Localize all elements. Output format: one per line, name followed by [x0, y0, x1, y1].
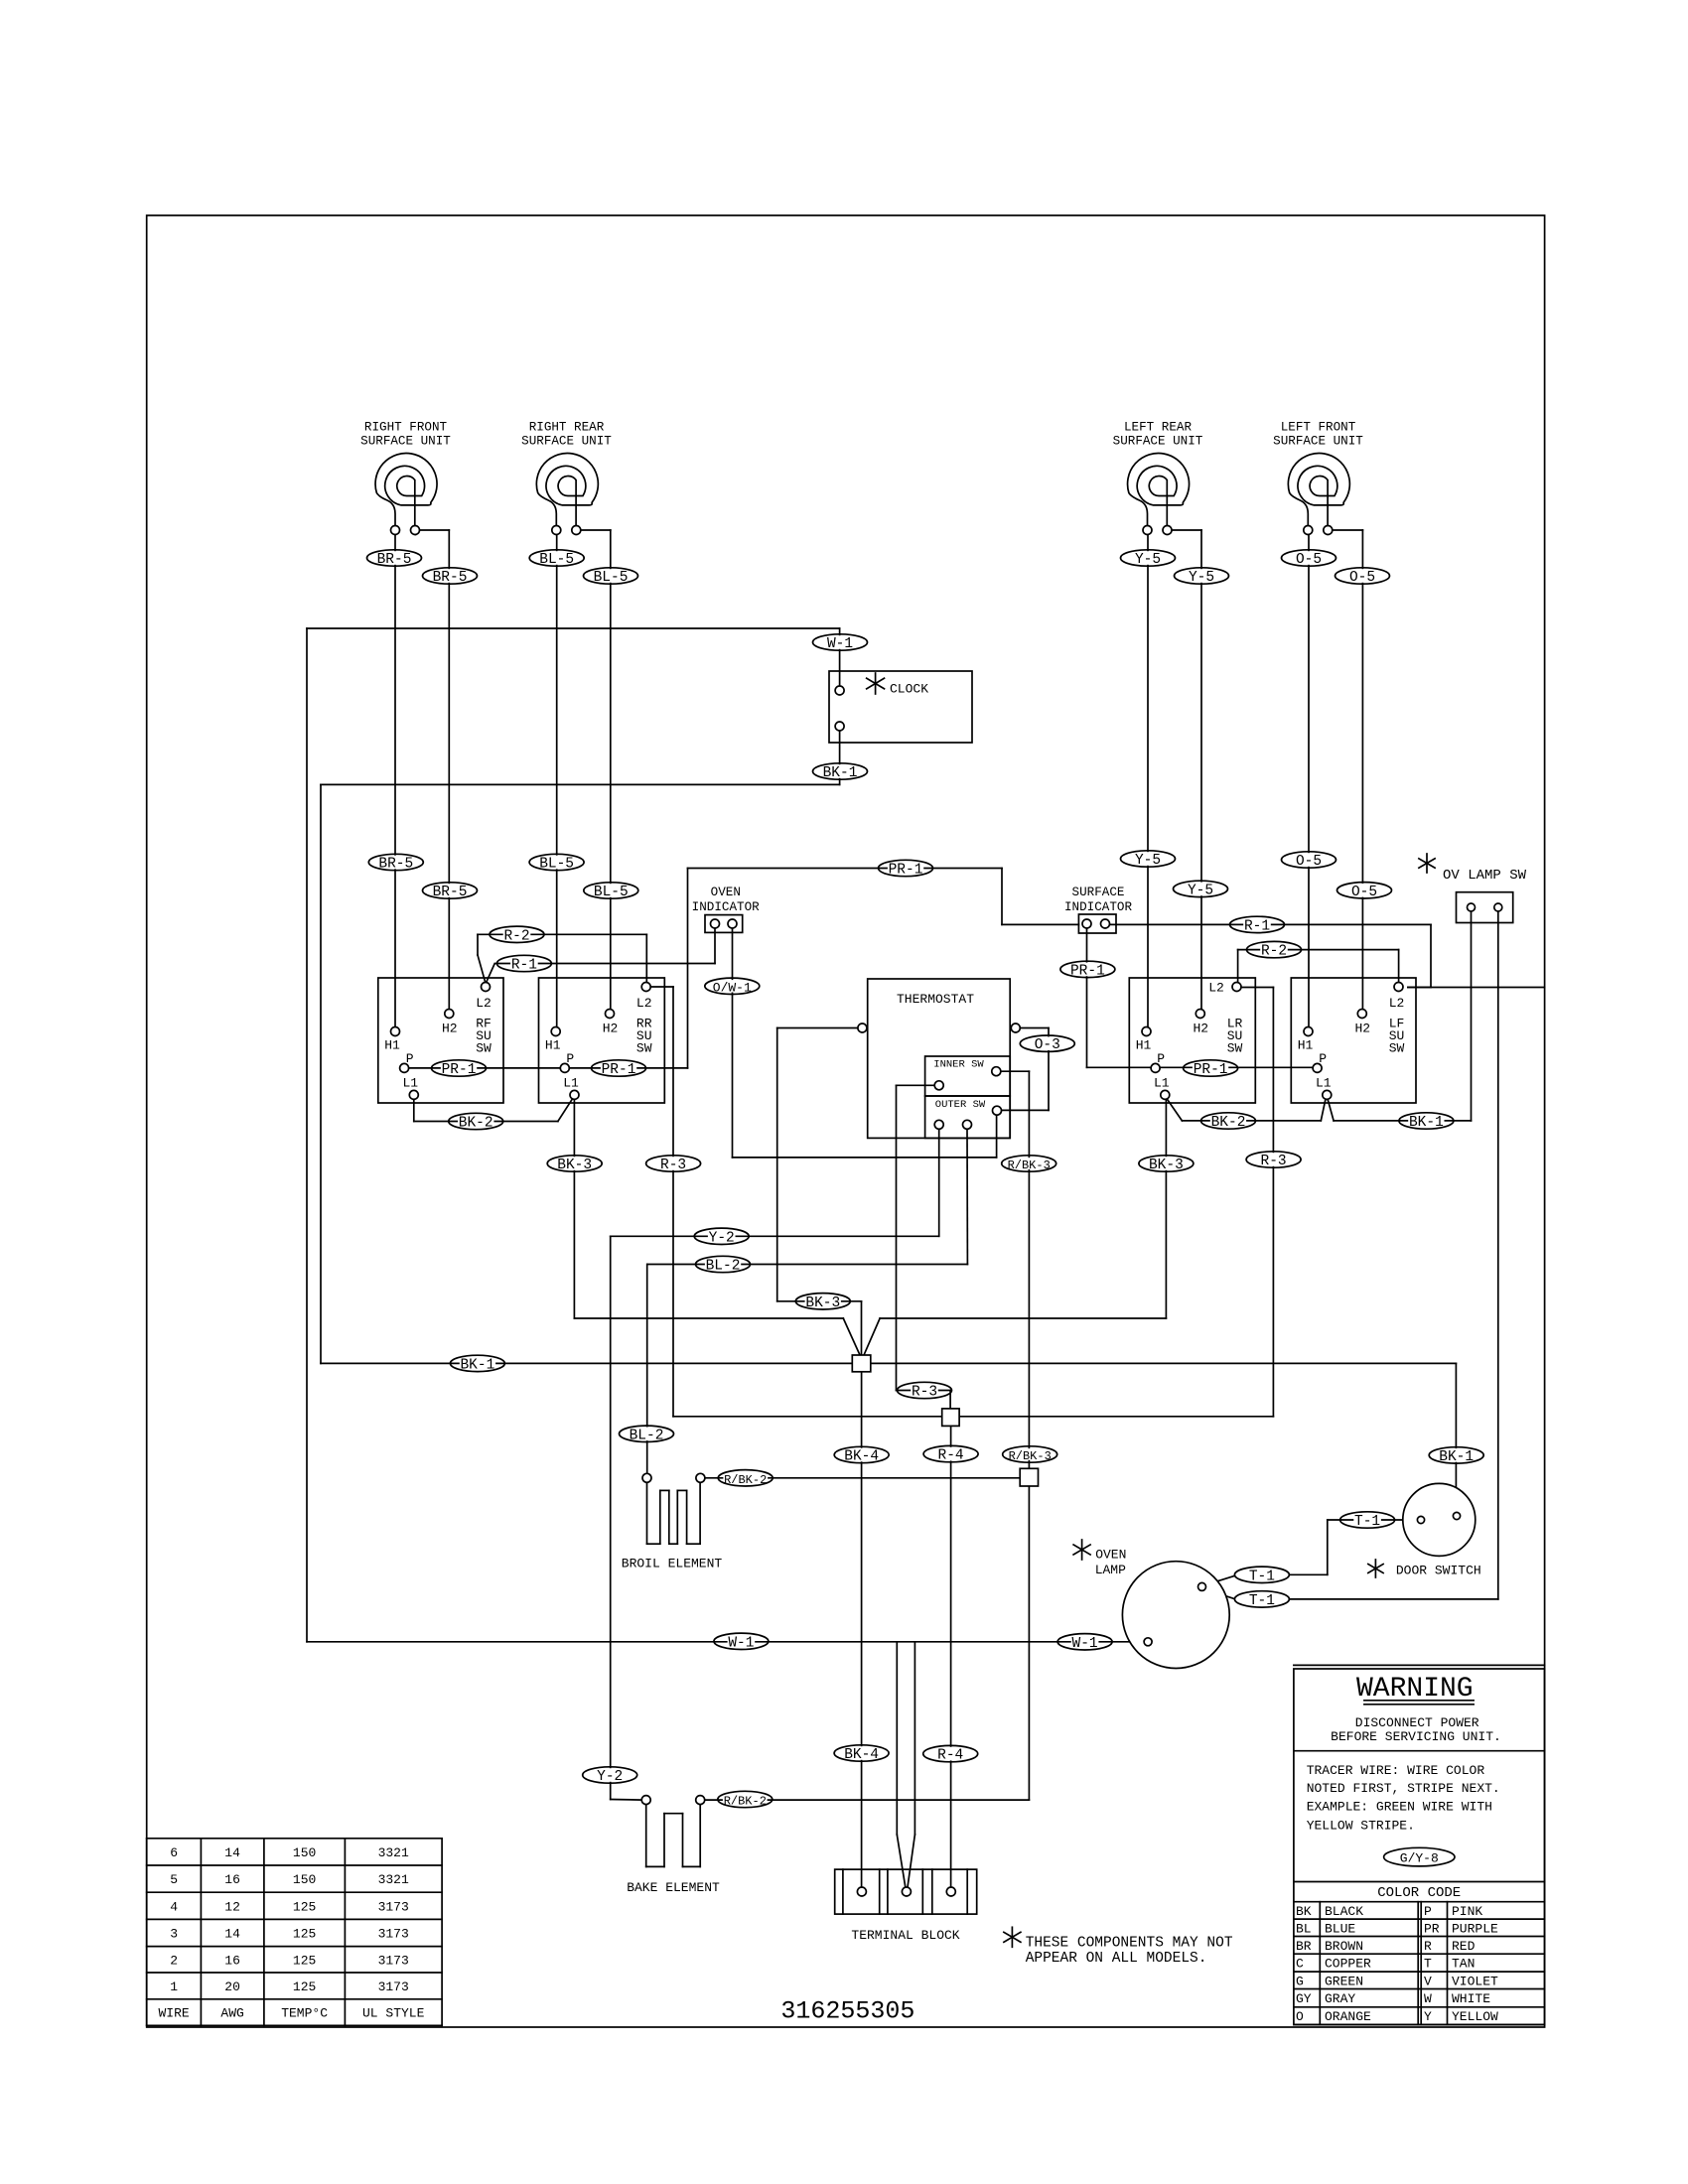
svg-text:O-5: O-5	[1296, 854, 1322, 870]
svg-text:BL-5: BL-5	[539, 552, 574, 568]
svg-text:150: 150	[293, 1845, 316, 1860]
svg-text:L1: L1	[402, 1076, 418, 1091]
svg-text:R-4: R-4	[937, 1748, 963, 1764]
svg-text:THERMOSTAT: THERMOSTAT	[897, 992, 974, 1007]
svg-text:PR-1: PR-1	[1194, 1062, 1228, 1078]
svg-text:H2: H2	[1354, 1022, 1370, 1036]
svg-text:BK-3: BK-3	[805, 1296, 840, 1311]
svg-text:H2: H2	[442, 1022, 458, 1036]
svg-text:COPPER: COPPER	[1325, 1957, 1371, 1972]
svg-text:125: 125	[293, 1927, 316, 1942]
svg-text:W-1: W-1	[827, 636, 853, 652]
svg-text:BR-5: BR-5	[433, 885, 468, 900]
svg-text:GREEN: GREEN	[1325, 1974, 1363, 1988]
svg-text:SW: SW	[636, 1041, 652, 1056]
svg-text:BEFORE SERVICING UNIT.: BEFORE SERVICING UNIT.	[1331, 1729, 1501, 1744]
svg-text:RIGHT REAR: RIGHT REAR	[529, 421, 605, 435]
svg-text:YELLOW: YELLOW	[1452, 2009, 1498, 2024]
svg-text:20: 20	[224, 1979, 240, 1994]
svg-text:THESE COMPONENTS MAY NOT: THESE COMPONENTS MAY NOT	[1026, 1936, 1233, 1952]
svg-text:R/BK-3: R/BK-3	[1008, 1159, 1051, 1172]
svg-text:SURFACE UNIT: SURFACE UNIT	[360, 435, 451, 449]
svg-text:BLUE: BLUE	[1325, 1921, 1355, 1936]
svg-text:SURFACE UNIT: SURFACE UNIT	[521, 435, 612, 449]
svg-text:T-1: T-1	[1249, 1593, 1275, 1609]
svg-text:H1: H1	[1136, 1038, 1152, 1053]
svg-text:14: 14	[224, 1845, 240, 1860]
svg-text:P: P	[1424, 1904, 1432, 1919]
svg-text:BR: BR	[1296, 1939, 1312, 1954]
svg-text:RIGHT FRONT: RIGHT FRONT	[364, 421, 448, 435]
svg-text:BL-5: BL-5	[594, 570, 629, 586]
svg-text:O-5: O-5	[1349, 570, 1375, 586]
svg-text:R-3: R-3	[1261, 1154, 1287, 1169]
svg-text:PR-1: PR-1	[889, 863, 923, 879]
svg-text:TERMINAL BLOCK: TERMINAL BLOCK	[851, 1928, 959, 1943]
svg-text:LAMP: LAMP	[1095, 1563, 1126, 1577]
svg-text:OVEN: OVEN	[711, 886, 741, 899]
svg-text:3173: 3173	[378, 1979, 409, 1994]
svg-text:Y-2: Y-2	[597, 1769, 623, 1785]
svg-text:BK-2: BK-2	[1211, 1115, 1246, 1131]
svg-text:BLACK: BLACK	[1325, 1904, 1363, 1919]
svg-text:BL-5: BL-5	[594, 885, 629, 900]
svg-text:P: P	[406, 1051, 414, 1066]
svg-text:PR-1: PR-1	[442, 1062, 477, 1078]
svg-text:APPEAR ON ALL MODELS.: APPEAR ON ALL MODELS.	[1026, 1951, 1207, 1967]
svg-text:TEMP°C: TEMP°C	[281, 2006, 328, 2021]
svg-text:BL-5: BL-5	[539, 857, 574, 873]
svg-text:R: R	[1424, 1939, 1432, 1954]
svg-text:BK-1: BK-1	[1439, 1449, 1474, 1465]
svg-text:VIOLET: VIOLET	[1452, 1974, 1498, 1988]
svg-text:PINK: PINK	[1452, 1904, 1482, 1919]
svg-text:1: 1	[170, 1979, 178, 1994]
svg-text:W-1: W-1	[1072, 1636, 1098, 1652]
svg-text:G/Y-8: G/Y-8	[1400, 1851, 1439, 1866]
svg-text:H1: H1	[545, 1038, 561, 1053]
svg-text:16: 16	[224, 1953, 240, 1968]
svg-text:H1: H1	[384, 1038, 400, 1053]
svg-text:Y-5: Y-5	[1135, 552, 1161, 568]
svg-text:PR: PR	[1424, 1921, 1440, 1936]
svg-text:AWG: AWG	[220, 2006, 243, 2021]
svg-text:Y-5: Y-5	[1188, 883, 1213, 898]
svg-text:BK-4: BK-4	[844, 1747, 879, 1763]
svg-text:L2: L2	[476, 996, 492, 1011]
svg-text:R-2: R-2	[503, 928, 529, 944]
svg-text:12: 12	[224, 1899, 240, 1914]
svg-text:R-1: R-1	[1244, 918, 1270, 934]
svg-text:INNER SW: INNER SW	[933, 1059, 984, 1071]
svg-text:T-1: T-1	[1354, 1514, 1380, 1530]
svg-text:SW: SW	[1389, 1041, 1405, 1056]
svg-text:H2: H2	[603, 1022, 619, 1036]
svg-text:T: T	[1424, 1957, 1432, 1972]
svg-text:BL: BL	[1296, 1921, 1312, 1936]
svg-text:R/BK-2: R/BK-2	[724, 1795, 767, 1809]
svg-text:125: 125	[293, 1899, 316, 1914]
svg-text:UL STYLE: UL STYLE	[362, 2006, 425, 2021]
svg-text:Y: Y	[1424, 2009, 1432, 2024]
svg-text:P: P	[1319, 1051, 1327, 1066]
svg-text:BR-5: BR-5	[377, 552, 412, 568]
svg-text:BK-1: BK-1	[1409, 1115, 1444, 1131]
svg-text:BL-2: BL-2	[630, 1428, 664, 1443]
svg-text:O-5: O-5	[1351, 885, 1377, 900]
svg-text:SW: SW	[1227, 1041, 1243, 1056]
svg-text:BROWN: BROWN	[1325, 1939, 1363, 1954]
svg-text:L1: L1	[563, 1076, 579, 1091]
svg-text:150: 150	[293, 1872, 316, 1887]
svg-text:16: 16	[224, 1872, 240, 1887]
svg-text:BR-5: BR-5	[433, 570, 468, 586]
svg-text:125: 125	[293, 1953, 316, 1968]
svg-text:V: V	[1424, 1974, 1432, 1988]
svg-text:T-1: T-1	[1249, 1569, 1275, 1584]
svg-text:SURFACE: SURFACE	[1072, 886, 1125, 899]
svg-text:R/BK-2: R/BK-2	[724, 1473, 767, 1487]
svg-text:OVEN: OVEN	[1095, 1548, 1126, 1563]
svg-text:INDICATOR: INDICATOR	[692, 900, 760, 914]
svg-text:LEFT FRONT: LEFT FRONT	[1281, 421, 1356, 435]
svg-text:SW: SW	[476, 1041, 492, 1056]
svg-text:EXAMPLE: GREEN WIRE WITH: EXAMPLE: GREEN WIRE WITH	[1307, 1799, 1492, 1814]
svg-text:3173: 3173	[378, 1953, 409, 1968]
svg-text:L2: L2	[1389, 996, 1405, 1011]
svg-text:TRACER WIRE: WIRE COLOR: TRACER WIRE: WIRE COLOR	[1307, 1763, 1485, 1778]
svg-text:H2: H2	[1193, 1022, 1208, 1036]
svg-text:3: 3	[170, 1927, 178, 1942]
svg-text:O/W-1: O/W-1	[713, 980, 752, 995]
svg-text:BR-5: BR-5	[378, 857, 413, 873]
svg-text:WHITE: WHITE	[1452, 1991, 1490, 2006]
svg-text:P: P	[1157, 1051, 1165, 1066]
svg-text:OV LAMP SW: OV LAMP SW	[1443, 868, 1527, 884]
svg-text:BK-3: BK-3	[557, 1158, 592, 1173]
svg-text:RED: RED	[1452, 1939, 1476, 1954]
svg-text:O-5: O-5	[1296, 552, 1322, 568]
svg-text:3173: 3173	[378, 1899, 409, 1914]
svg-text:P: P	[566, 1051, 574, 1066]
svg-text:Y-5: Y-5	[1135, 853, 1161, 869]
svg-text:WARNING: WARNING	[1356, 1674, 1474, 1705]
svg-text:BK-1: BK-1	[823, 765, 858, 781]
svg-text:3321: 3321	[378, 1872, 409, 1887]
svg-text:R-4: R-4	[938, 1448, 964, 1464]
svg-text:W-1: W-1	[728, 1635, 754, 1651]
svg-text:L2: L2	[636, 996, 652, 1011]
svg-text:YELLOW STRIPE.: YELLOW STRIPE.	[1307, 1819, 1415, 1834]
svg-text:O: O	[1296, 2009, 1304, 2024]
svg-text:PR-1: PR-1	[602, 1062, 636, 1078]
svg-text:INDICATOR: INDICATOR	[1064, 900, 1132, 914]
svg-text:BAKE ELEMENT: BAKE ELEMENT	[627, 1880, 720, 1895]
svg-text:BK-1: BK-1	[460, 1357, 494, 1373]
svg-text:GRAY: GRAY	[1325, 1991, 1355, 2006]
svg-text:W: W	[1424, 1991, 1432, 2006]
svg-text:BK-3: BK-3	[1149, 1158, 1184, 1173]
svg-text:NOTED FIRST, STRIPE NEXT.: NOTED FIRST, STRIPE NEXT.	[1307, 1781, 1500, 1796]
svg-text:OUTER SW: OUTER SW	[935, 1099, 986, 1111]
svg-text:R-3: R-3	[912, 1385, 937, 1401]
svg-text:R-2: R-2	[1261, 944, 1287, 960]
svg-text:CLOCK: CLOCK	[890, 682, 928, 697]
svg-text:DISCONNECT POWER: DISCONNECT POWER	[1355, 1715, 1479, 1730]
svg-text:4: 4	[170, 1899, 178, 1914]
svg-text:LEFT REAR: LEFT REAR	[1124, 421, 1192, 435]
svg-text:316255305: 316255305	[780, 1997, 914, 2026]
svg-text:C: C	[1296, 1957, 1304, 1972]
svg-text:BROIL ELEMENT: BROIL ELEMENT	[622, 1557, 723, 1571]
svg-text:PURPLE: PURPLE	[1452, 1921, 1498, 1936]
svg-text:R/BK-3: R/BK-3	[1009, 1449, 1052, 1463]
svg-text:DOOR SWITCH: DOOR SWITCH	[1396, 1564, 1481, 1578]
svg-text:TAN: TAN	[1452, 1957, 1475, 1972]
svg-text:5: 5	[170, 1872, 178, 1887]
svg-text:ORANGE: ORANGE	[1325, 2009, 1371, 2024]
svg-text:BK: BK	[1296, 1904, 1312, 1919]
svg-text:Y-2: Y-2	[709, 1230, 735, 1246]
svg-text:G: G	[1296, 1974, 1304, 1988]
svg-text:R-3: R-3	[660, 1158, 686, 1173]
svg-text:PR-1: PR-1	[1070, 963, 1105, 979]
svg-text:L2: L2	[1208, 981, 1224, 996]
svg-text:3173: 3173	[378, 1927, 409, 1942]
svg-text:2: 2	[170, 1953, 178, 1968]
svg-text:O-3: O-3	[1035, 1037, 1060, 1053]
svg-text:BL-2: BL-2	[706, 1259, 741, 1275]
svg-text:14: 14	[224, 1927, 240, 1942]
svg-text:SURFACE UNIT: SURFACE UNIT	[1113, 435, 1203, 449]
svg-text:R-1: R-1	[511, 958, 537, 974]
svg-text:H1: H1	[1298, 1038, 1314, 1053]
svg-text:BK-4: BK-4	[844, 1449, 879, 1465]
svg-text:L1: L1	[1154, 1076, 1170, 1091]
svg-text:COLOR CODE: COLOR CODE	[1377, 1885, 1461, 1901]
svg-text:WIRE: WIRE	[158, 2006, 189, 2021]
svg-text:6: 6	[170, 1845, 178, 1860]
svg-text:SURFACE UNIT: SURFACE UNIT	[1273, 435, 1363, 449]
svg-text:GY: GY	[1296, 1991, 1312, 2006]
svg-text:3321: 3321	[378, 1845, 409, 1860]
svg-text:Y-5: Y-5	[1189, 570, 1214, 586]
svg-text:BK-2: BK-2	[459, 1116, 493, 1132]
svg-text:L1: L1	[1316, 1076, 1332, 1091]
svg-text:125: 125	[293, 1979, 316, 1994]
